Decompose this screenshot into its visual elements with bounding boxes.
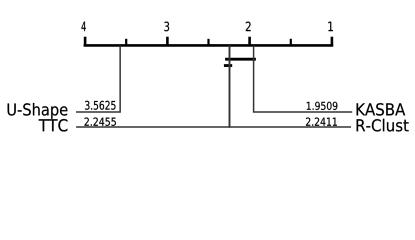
major tick 2 — [248, 37, 251, 46]
minor tick 2.5 — [207, 39, 209, 46]
method label TTC — [39, 119, 68, 132]
axis label 3 — [164, 22, 169, 32]
axis main line — [84, 44, 334, 47]
major tick 1 — [331, 37, 334, 46]
minor tick 3.5 — [125, 39, 127, 46]
value label 1.9509 — [307, 102, 338, 110]
rank line U-Shape — [76, 45, 120, 112]
method label R-Clust — [357, 119, 409, 132]
axis label 4 — [82, 22, 86, 32]
clique bar KASBA/R-Clust — [225, 58, 256, 61]
rank line TTC — [76, 45, 229, 127]
value label 3.5625 — [85, 101, 115, 110]
value label 2.2455 — [85, 118, 116, 126]
major tick 3 — [166, 37, 169, 46]
axis label 2 — [246, 22, 251, 32]
clique bar R-Clust/TTC — [224, 64, 232, 67]
rank line KASBA — [254, 45, 353, 112]
minor tick 1.5 — [290, 39, 292, 46]
rank line R-Clust — [230, 45, 351, 127]
major tick 4 — [84, 37, 87, 46]
method label KASBA — [357, 103, 406, 116]
axis label 1 — [328, 22, 333, 32]
method label U-Shape — [8, 103, 68, 119]
value label 2.2411 — [306, 118, 337, 126]
